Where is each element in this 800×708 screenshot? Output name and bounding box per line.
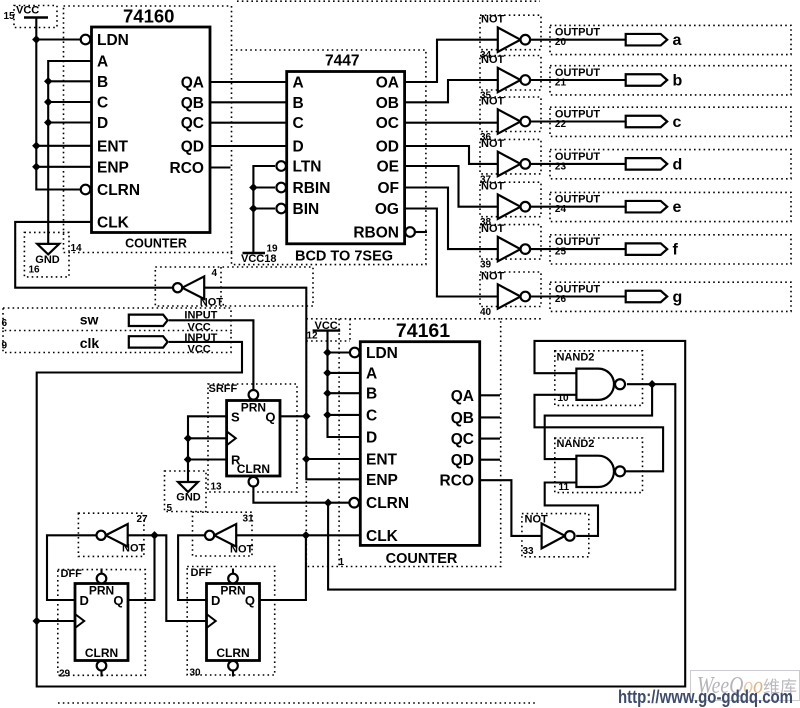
inversion bubble U1.LDN — [81, 35, 91, 45]
selection box around NOT40 — [480, 272, 541, 307]
NOT gate U31 — [205, 524, 236, 547]
selection box around U2 7447 — [232, 50, 426, 265]
junction on Q row — [302, 412, 310, 420]
selection box around OUTPUT25 — [550, 235, 791, 264]
svg-text:OC: OC — [376, 115, 399, 132]
wire U2.RBON stub — [415, 231, 427, 233]
svg-text:NOT: NOT — [481, 138, 505, 150]
svg-text:1: 1 — [339, 557, 345, 568]
svg-text:b: b — [673, 73, 683, 90]
svg-text:OF: OF — [377, 180, 399, 197]
flip-flop DFF29 PRN stub — [100, 569, 102, 574]
junction on LDN row — [323, 348, 331, 356]
junction on B row — [44, 77, 52, 85]
junction on LDN row — [32, 35, 40, 43]
svg-text:http://www.go-gddq.com: http://www.go-gddq.com — [618, 687, 793, 707]
svg-text:16: 16 — [29, 265, 41, 276]
wire to SRFF clock — [188, 437, 227, 439]
svg-text:ENP: ENP — [97, 159, 129, 176]
selection line top edge — [237, 0, 540, 2]
wire VCC rail to U1.CLRN — [36, 18, 80, 190]
junction on A row — [323, 369, 331, 377]
svg-text:CLRN: CLRN — [216, 646, 249, 660]
wire NOT31 and DFF30.Q to U3.CLK — [236, 534, 360, 536]
selection box around SRFF — [208, 384, 297, 492]
svg-text:S: S — [231, 410, 240, 425]
svg-text:27: 27 — [137, 514, 149, 525]
selection box around OUTPUT20 — [550, 25, 791, 54]
wire VCC to U3.B — [328, 392, 361, 394]
svg-text:VCC: VCC — [16, 5, 39, 17]
svg-text:C: C — [97, 95, 108, 112]
selection box around OUTPUT21 — [550, 66, 791, 95]
input connector SW — [129, 315, 168, 326]
svg-text:LTN: LTN — [293, 159, 322, 176]
wire U1.QC to U2.C — [210, 122, 287, 124]
junction on left rail — [33, 617, 41, 625]
svg-text:10: 10 — [558, 393, 570, 404]
wire U2.OB to NOT35 — [405, 80, 499, 102]
selection box around NOT34 — [480, 15, 541, 50]
svg-text:c: c — [673, 114, 682, 131]
inversion bubble U2.BIN — [276, 204, 286, 214]
selection box around NOT39 — [480, 225, 541, 260]
svg-text:RCO: RCO — [170, 160, 204, 177]
svg-text:C: C — [366, 407, 377, 424]
wire NOT33 output to NAND11 input — [545, 483, 598, 536]
svg-text:CLRN: CLRN — [366, 495, 409, 512]
svg-text:DFF: DFF — [61, 568, 83, 580]
selection box around DFF30 — [187, 567, 275, 676]
svg-text:26: 26 — [555, 294, 567, 305]
svg-text:RBIN: RBIN — [293, 180, 331, 197]
junction on clock row — [184, 434, 192, 442]
svg-text:15: 15 — [4, 11, 16, 22]
wire NOT34 to OUTPUT20 — [530, 39, 626, 41]
selection box around input CLK — [3, 331, 231, 353]
wire U2.OE to NOT38 — [405, 166, 499, 207]
wire DFF29.Q riser — [128, 535, 155, 600]
selection box around NOT38 — [480, 182, 541, 217]
svg-text:39: 39 — [480, 260, 492, 271]
svg-text:BCD TO 7SEG: BCD TO 7SEG — [295, 249, 393, 265]
wire U1.RCO stub — [210, 166, 231, 168]
svg-text:CLK: CLK — [97, 214, 130, 231]
selection box around NAND11 — [555, 438, 643, 493]
input connector CLK — [129, 336, 168, 347]
svg-text:NOT: NOT — [122, 543, 146, 555]
svg-text:OE: OE — [377, 159, 399, 176]
watermark box — [691, 671, 800, 701]
wire NOT37 to OUTPUT23 — [530, 163, 626, 165]
svg-text:23: 23 — [555, 161, 567, 172]
wire SRFF.CLRN to U3.CLRN — [253, 487, 349, 503]
svg-text:PRN: PRN — [89, 584, 114, 598]
svg-text:33: 33 — [523, 546, 535, 557]
svg-text:NOT: NOT — [230, 544, 254, 556]
DFF30 clock input triangle — [207, 614, 216, 628]
svg-text:RBON: RBON — [353, 225, 399, 242]
selection line inner edge near U3 — [338, 319, 340, 567]
svg-text:NAND2: NAND2 — [557, 438, 595, 450]
svg-text:A: A — [366, 365, 377, 382]
wire NOT4 output to U1.CLK — [15, 222, 173, 288]
junction on R row — [184, 455, 192, 463]
inversion bubble U2.LTN — [276, 161, 286, 171]
inversion bubble DFF30.CLRN — [228, 661, 238, 671]
svg-text:D: D — [80, 593, 89, 608]
inversion bubble SRFF.PRN — [249, 390, 259, 400]
wire U3.QD stub — [480, 459, 500, 461]
svg-text:D: D — [97, 115, 108, 132]
selection box around DFF29 — [58, 570, 146, 676]
selection line inner edge near NOT4 — [220, 267, 222, 306]
wire VCC to U3.LDN — [328, 351, 350, 353]
svg-text:30: 30 — [190, 668, 202, 679]
svg-text:ENT: ENT — [366, 452, 398, 469]
wire U2.OD to NOT37 — [405, 146, 499, 164]
inversion bubble U2.RBON — [405, 227, 415, 237]
svg-text:COUNTER: COUNTER — [125, 237, 187, 251]
wire NOT38 to OUTPUT24 — [530, 206, 626, 208]
svg-text:Q: Q — [113, 593, 123, 608]
svg-text:21: 21 — [555, 78, 567, 89]
svg-text:14: 14 — [71, 243, 83, 254]
inversion bubble DFF30.PRN — [228, 574, 238, 584]
svg-text:QB: QB — [181, 95, 204, 112]
flip-flop DFF30 PRN stub — [232, 569, 234, 574]
svg-text:QC: QC — [451, 431, 474, 448]
svg-text:A: A — [97, 54, 108, 71]
junction on CLRN row — [324, 499, 332, 507]
flip-flop DFF29 CLRN stub — [100, 671, 102, 677]
wire VCC to U3.A — [328, 372, 361, 374]
svg-text:COUNTER: COUNTER — [386, 551, 458, 567]
svg-text:clk: clk — [80, 335, 100, 351]
NOT gate U27 — [97, 524, 128, 547]
svg-text:20: 20 — [555, 37, 567, 48]
power symbol V12 VCC — [313, 329, 341, 331]
NOT gate U4 — [173, 276, 204, 299]
svg-text:13: 13 — [211, 482, 223, 493]
wire NOT35 to OUTPUT21 — [530, 79, 626, 81]
svg-text:VCC: VCC — [315, 320, 338, 332]
wire sw to SRFF.PRN — [169, 320, 254, 389]
svg-text:LDN: LDN — [97, 32, 129, 49]
wire VCC to U3.C — [328, 414, 361, 416]
wire U1.D to GND rail — [48, 121, 91, 123]
selection box around NOT27 — [78, 513, 143, 556]
inversion bubble SRFF.CLRN — [249, 477, 259, 487]
svg-text:VCC: VCC — [188, 343, 211, 355]
decoder U2 7447 body — [287, 72, 405, 244]
svg-text:ENP: ENP — [366, 472, 398, 489]
selection box around U1 74160 — [64, 6, 232, 253]
SRFF clock input triangle — [227, 431, 236, 445]
svg-text:NOT: NOT — [481, 223, 505, 235]
wire NOT27 output to DFF29.D — [47, 535, 97, 600]
svg-text:CLRN: CLRN — [97, 182, 140, 199]
svg-text:QC: QC — [181, 115, 204, 132]
selection box around OUTPUT23 — [550, 150, 791, 179]
svg-text:LDN: LDN — [366, 345, 398, 362]
wire U3.QA stub — [480, 394, 500, 396]
svg-text:Q: Q — [265, 410, 275, 425]
junction on C row — [44, 98, 52, 106]
svg-text:31: 31 — [243, 514, 255, 525]
wire U1.A to GND rail — [48, 61, 91, 244]
wire VCC rail to U3.D — [328, 331, 361, 437]
wire VCC to U2.RBIN — [253, 186, 275, 188]
selection box around input SW — [3, 308, 231, 331]
inversion bubble U3.LDN — [350, 348, 360, 358]
svg-text:g: g — [673, 289, 683, 306]
selection box around NOT4 — [155, 267, 313, 306]
selection box around NOT37 — [480, 139, 541, 174]
svg-text:NOT: NOT — [525, 514, 549, 526]
svg-text:PRN: PRN — [241, 401, 266, 415]
junction on C row — [323, 411, 331, 419]
svg-text:SRFF: SRFF — [209, 383, 238, 395]
svg-text:RCO: RCO — [440, 473, 474, 490]
selection box around NOT36 — [480, 97, 541, 132]
flip-flop SRFF body — [227, 401, 280, 477]
wire U1.B to GND rail — [48, 80, 91, 82]
svg-text:B: B — [293, 95, 304, 112]
NOT gate U35 — [498, 68, 530, 92]
svg-text:d: d — [673, 156, 683, 173]
NOT gate U36 — [498, 109, 530, 133]
wire clk loop to DFF29 clock — [37, 620, 75, 622]
svg-text:NOT.: NOT. — [200, 297, 225, 309]
output connector f segment — [626, 243, 668, 255]
NAND gate U11 — [576, 456, 625, 487]
svg-text:OG: OG — [375, 201, 399, 218]
svg-text:4: 4 — [212, 268, 218, 279]
svg-text:NOT: NOT — [481, 271, 505, 283]
junction on NOT27 input row — [150, 531, 158, 539]
svg-text:74161: 74161 — [396, 320, 450, 342]
wire VCC rail to U2.LTN — [253, 166, 275, 253]
svg-text:e: e — [673, 199, 682, 216]
selection line VCC V12 box bottom — [306, 340, 350, 342]
svg-text:D: D — [211, 593, 220, 608]
wire U1.QA to U2.A — [210, 81, 287, 83]
svg-text:BIN: BIN — [293, 201, 320, 218]
NOT gate U34 — [498, 28, 530, 52]
svg-text:NOT: NOT — [481, 54, 505, 66]
svg-text:22: 22 — [555, 119, 567, 130]
wire to SRFF.R — [188, 458, 227, 460]
svg-text:11: 11 — [559, 482, 570, 493]
junction on NAND10 output — [648, 380, 656, 388]
NOT gate U40 — [498, 284, 530, 308]
svg-text:sw: sw — [80, 312, 99, 328]
wire VCC to U1.ENT — [36, 145, 91, 147]
NOT gate U37 — [498, 152, 530, 176]
svg-text:NOT: NOT — [481, 14, 505, 26]
selection line VCC V12 box right — [349, 319, 351, 341]
selection box around OUTPUT22 — [550, 107, 791, 136]
flip-flop DFF30 CLRN stub — [232, 671, 234, 677]
svg-text:ENT: ENT — [97, 138, 129, 155]
wire SRFF.S R CLK tie to GND — [188, 416, 227, 482]
junction on RBIN row — [249, 183, 257, 191]
svg-text:12: 12 — [307, 331, 319, 342]
svg-text:QA: QA — [451, 388, 474, 405]
svg-text:24: 24 — [555, 204, 567, 215]
wire NAND10 output to U3.CLRN — [328, 384, 675, 589]
svg-text:OB: OB — [376, 95, 399, 112]
svg-text:19: 19 — [267, 244, 279, 255]
output connector d segment — [626, 158, 668, 170]
ground symbol G16 GND — [37, 244, 59, 255]
svg-text:VCC18: VCC18 — [241, 253, 276, 265]
svg-text:QA: QA — [181, 75, 204, 92]
inversion bubble U1.CLRN — [81, 185, 91, 195]
wire NOT31 output to DFF30.D — [178, 535, 206, 600]
junction on ENP row — [32, 163, 40, 171]
svg-text:29: 29 — [59, 669, 71, 680]
svg-text:74160: 74160 — [123, 6, 174, 27]
junction on ENT row — [302, 455, 310, 463]
svg-text:9: 9 — [2, 341, 8, 352]
NOT gate U39 — [498, 237, 530, 261]
svg-text:CLRN: CLRN — [85, 646, 118, 660]
wire U3.RCO to NOT33 — [480, 480, 542, 536]
NOT gate U33 — [542, 523, 575, 548]
wire NOT39 to OUTPUT25 — [530, 248, 626, 250]
output connector a segment — [626, 34, 668, 46]
svg-text:5: 5 — [167, 503, 173, 514]
selection box around OUTPUT24 — [550, 192, 791, 221]
wire DFF30.Q riser — [260, 535, 306, 600]
wire NAND10 output to NAND11 input — [545, 384, 652, 459]
svg-text:OD: OD — [376, 139, 399, 156]
wire branch to U3.ENT — [306, 458, 360, 460]
wire U3.QB stub — [480, 416, 500, 418]
inversion bubble U2.RBIN — [276, 183, 286, 193]
flip-flop DFF30 body — [207, 584, 260, 661]
svg-text:DFF: DFF — [191, 567, 213, 579]
output connector b segment — [626, 74, 668, 86]
svg-text:OA: OA — [376, 75, 399, 92]
wire NOT36 to OUTPUT22 — [530, 120, 626, 122]
svg-text:QD: QD — [181, 139, 204, 156]
junction on B row — [323, 389, 331, 397]
power symbol V15 VCC — [24, 16, 48, 18]
junction on CLK row — [302, 531, 310, 539]
selection box around VCC V15 — [14, 6, 57, 28]
NOT gate U38 — [498, 195, 530, 219]
wire U2.OA to NOT34 — [405, 40, 499, 82]
svg-text:CLK: CLK — [366, 528, 399, 545]
svg-text:Q: Q — [245, 593, 255, 608]
svg-text:NAND2: NAND2 — [557, 351, 595, 363]
svg-text:D: D — [293, 139, 304, 156]
svg-text:GND: GND — [176, 492, 201, 504]
svg-text:f: f — [673, 242, 679, 259]
output connector e segment — [626, 201, 668, 213]
selection box around OUTPUT26 — [550, 282, 791, 311]
selection box around NAND10 — [555, 351, 643, 406]
svg-text:PRN: PRN — [220, 584, 245, 598]
svg-text:NOT: NOT — [481, 181, 505, 193]
wire U2.OG to NOT40 — [405, 209, 499, 297]
svg-text:6: 6 — [2, 318, 8, 329]
DFF29 clock input triangle — [75, 614, 84, 628]
NAND gate U10 — [576, 369, 625, 400]
wire VCC to U2.BIN — [253, 207, 275, 209]
wire SRFF.Q to branch — [280, 415, 306, 417]
svg-text:B: B — [97, 74, 108, 91]
wire U1.QB to U2.B — [210, 101, 287, 103]
power symbol V18 VCC — [243, 252, 266, 254]
ground symbol G5 GND — [178, 482, 198, 492]
svg-text:40: 40 — [480, 307, 492, 318]
selection line bottom edge — [58, 702, 535, 704]
output connector g segment — [626, 291, 668, 303]
svg-text:NOT: NOT — [481, 96, 505, 108]
wire NOT40 to OUTPUT26 — [530, 295, 626, 297]
wire U2.OC to NOT36 — [405, 122, 499, 124]
wire clk loop to NAND10 input — [37, 341, 686, 687]
flip-flop DFF29 body — [75, 584, 128, 661]
svg-text:a: a — [673, 32, 682, 49]
svg-text:A: A — [293, 75, 304, 92]
wire U2.OF to NOT39 — [405, 188, 499, 250]
wire U1.QD to U2.D — [210, 145, 287, 147]
wire DFF29.Q to DFF30 clock — [128, 535, 207, 621]
wire U3.QC stub — [480, 438, 500, 440]
inversion bubble U3.CLRN — [349, 498, 359, 508]
wire NOT4 input from SRFF.Q to U3.ENP — [204, 288, 360, 480]
svg-text:B: B — [366, 386, 377, 403]
counter U3 74161 body — [360, 342, 479, 546]
output connector c segment — [626, 116, 668, 128]
junction on BIN row — [249, 204, 257, 212]
svg-text:QD: QD — [451, 452, 474, 469]
junction on ENT row — [32, 142, 40, 150]
wire NAND11 output to NAND10 input — [535, 395, 664, 472]
wire U1.C to GND rail — [48, 101, 91, 103]
svg-text:QB: QB — [451, 410, 474, 427]
wire VCC to U1.ENP — [36, 166, 91, 168]
wire VCC to U1.LDN — [36, 38, 80, 40]
junction on D row — [44, 118, 52, 126]
svg-text:7447: 7447 — [325, 53, 359, 70]
selection box around U3 74161 — [306, 319, 500, 567]
counter U1 74160 body — [92, 27, 211, 233]
svg-text:25: 25 — [555, 247, 567, 258]
inversion bubble DFF29.PRN — [97, 574, 107, 584]
svg-text:D: D — [366, 430, 377, 447]
selection box around GND G5 — [165, 471, 207, 512]
selection box around NOT33 — [522, 514, 589, 557]
selection box around NOT35 — [480, 56, 541, 91]
selection line edge below NOT40 — [501, 318, 541, 320]
selection box around GND G16 — [24, 232, 69, 277]
svg-text:C: C — [293, 115, 304, 132]
selection box around NOT31 — [193, 512, 253, 556]
inversion bubble DFF29.CLRN — [97, 661, 107, 671]
svg-text:CLRN: CLRN — [237, 462, 270, 476]
